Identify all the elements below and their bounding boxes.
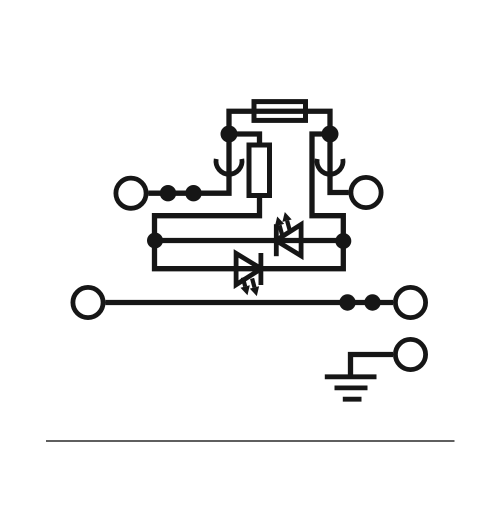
node fuse right	[322, 126, 339, 143]
terminal point bottom-left	[73, 287, 103, 317]
terminal point bottom-right	[395, 287, 425, 317]
LED D2 cathode bar	[274, 224, 279, 256]
terminal point ground	[395, 339, 425, 369]
fuse F1	[254, 102, 306, 121]
LED D1 (lower, pointing right)	[236, 253, 261, 296]
wire resistor branch and lower LED row	[229, 134, 260, 145]
LED D2 emission arrow 2	[287, 221, 290, 232]
LED D2 anode triangle	[276, 225, 301, 256]
wire bottom feed-through row	[105, 300, 393, 305]
resistor R1	[249, 145, 270, 196]
wire right jog from node to LED rows	[312, 134, 343, 241]
LED D2 (upper, pointing left)	[275, 212, 301, 256]
wire resistor bottom jog to lower row	[155, 196, 344, 269]
ground bar 2	[335, 385, 368, 390]
ground bar 1	[325, 374, 377, 379]
node clamp dot bottom 2	[364, 294, 380, 310]
terminal point left-mid	[116, 178, 146, 208]
socket contact right (arc)	[317, 159, 343, 174]
socket contact left (arc)	[216, 159, 242, 174]
ground bar 3	[343, 397, 362, 402]
terminal circles	[73, 177, 426, 369]
node LED row right	[335, 233, 351, 249]
LED D1 cathode bar	[258, 253, 263, 285]
LED D1 anode triangle	[236, 253, 261, 284]
node fuse left	[221, 126, 238, 143]
node clamp dot left-mid 1	[160, 185, 176, 201]
wire main loop: left terminal to fuse to right terminal	[148, 111, 348, 193]
terminal point right-mid	[351, 177, 381, 207]
wire ground branch	[351, 355, 394, 377]
baseline rule	[46, 440, 455, 442]
node LED row left	[147, 233, 163, 249]
wire upper LED row	[155, 238, 343, 243]
LED D1 emission arrow 1	[243, 278, 245, 287]
ground	[325, 377, 377, 399]
junction node dots	[147, 126, 381, 311]
LED D2 emission arrow 1	[280, 225, 283, 236]
LED D1 emission arrow 2	[252, 278, 254, 287]
node clamp dot left-mid 2	[185, 185, 201, 201]
node clamp dot bottom 1	[339, 294, 355, 310]
